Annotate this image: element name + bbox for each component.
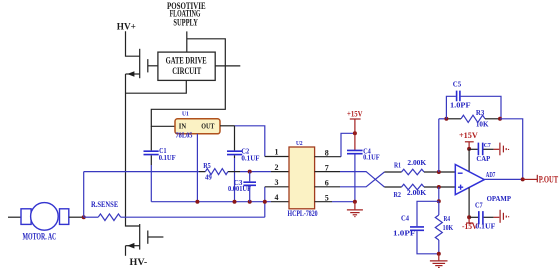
svg-text:CIRCUIT: CIRCUIT (172, 67, 201, 77)
port P.OUT (523, 174, 559, 184)
junction C3 on rail (248, 200, 252, 204)
svg-text:SUPPLY: SUPPLY (173, 17, 198, 27)
svg-text:2.00K: 2.00K (407, 159, 426, 167)
wire common rail to U2 pin4 (151, 201, 271, 203)
capacitor C7 bypass bottom (469, 202, 499, 231)
resistor R3 (439, 109, 500, 128)
wire op-amp V- pin (468, 188, 470, 218)
svg-text:C5: C5 (453, 81, 462, 89)
capacitor C4 filter (1.0PF) (393, 201, 439, 254)
wire plus node branch down (438, 187, 440, 201)
resistor R5 (203, 162, 228, 181)
svg-text:OPAMP: OPAMP (487, 195, 512, 203)
node motor/R.SENSE junction (82, 215, 86, 219)
junction +15V op-amp (467, 147, 471, 151)
wire op-amp V+ pin (468, 149, 470, 173)
svg-text:3: 3 (275, 178, 279, 187)
junction pin8 wire on +15V line (353, 131, 357, 135)
U2 isolation amp HCPL-7820 (288, 140, 318, 218)
svg-text:0.001UF: 0.001UF (228, 185, 251, 193)
wire U2 pin5 to ground node (315, 201, 332, 203)
wire supply to gate drive box (186, 31, 188, 52)
ground below R4 (430, 254, 448, 268)
junction -15V op-amp (467, 215, 471, 219)
wire U2 pin8 to +15V (315, 156, 341, 158)
svg-text:OUT: OUT (201, 121, 214, 130)
wire feedback riser (438, 119, 440, 172)
svg-text:C4: C4 (401, 214, 409, 222)
wire U1 GND drop (196, 134, 198, 202)
power -15V at op-amp (462, 217, 478, 231)
wire U2 pin2 line (84, 171, 271, 173)
svg-text:1.0PF: 1.0PF (393, 230, 415, 238)
svg-text:+15V: +15V (347, 109, 363, 118)
svg-text:1: 1 (275, 148, 279, 157)
svg-text:R3: R3 (476, 109, 485, 117)
ground rotated at C7 bottom (500, 210, 509, 223)
wire HV+ to Q1 drain (126, 31, 140, 56)
svg-text:0.1UF: 0.1UF (241, 154, 259, 162)
junction C5/R3 right (498, 117, 502, 121)
svg-text:4: 4 (275, 193, 279, 202)
wire feedback to output (500, 119, 523, 180)
junction R1 minus node (437, 170, 441, 174)
junction C2 on rail (233, 200, 237, 204)
svg-text:CAP: CAP (476, 155, 491, 163)
wire U2 pin6 cross to R1 (315, 186, 340, 188)
power +15V at U2 (347, 109, 363, 150)
wire U1 OUT to U2 pin1 (220, 125, 235, 127)
svg-text:R4: R4 (444, 215, 451, 223)
wire motor to node (69, 216, 84, 218)
svg-text:0.1UF: 0.1UF (363, 154, 380, 162)
svg-text:R1: R1 (394, 162, 401, 170)
svg-text:-15V: -15V (462, 222, 478, 231)
svg-text:78L05: 78L05 (176, 132, 193, 140)
junction pin3 riser on rail (263, 200, 267, 204)
capacitor C2 (227, 126, 260, 202)
ground below C4 (347, 202, 363, 217)
junction U1 gnd on rail (195, 200, 199, 204)
wire node up to pin2 line (83, 172, 85, 218)
resistor R.SENSE (84, 200, 265, 220)
svg-text:10K: 10K (476, 120, 489, 128)
junction ground bottom (437, 252, 441, 256)
wire supply branch to U1 IN (151, 39, 225, 127)
svg-text:HV+: HV+ (117, 22, 136, 32)
svg-text:1.0PF: 1.0PF (450, 102, 471, 110)
junction ground node (353, 200, 357, 204)
op-amp U3 (455, 165, 511, 203)
svg-text:2: 2 (275, 163, 279, 172)
wire gate drive right stub (215, 65, 240, 67)
U1 regulator 78L05 (175, 111, 220, 140)
svg-text:U1: U1 (182, 111, 189, 118)
capacitor C3 (228, 170, 256, 202)
svg-text:GATE DRIVE: GATE DRIVE (166, 56, 207, 66)
svg-text:HV-: HV- (130, 258, 148, 268)
resistor R2 (384, 184, 455, 199)
svg-text:AD7: AD7 (486, 171, 496, 179)
junction output node (521, 177, 525, 181)
svg-text:49: 49 (205, 173, 212, 181)
junction R2 plus node (437, 185, 441, 189)
transistor Q1 upper MOSFET (126, 49, 158, 78)
capacitor C7 bypass top (469, 142, 499, 163)
junction C5 left (444, 117, 448, 121)
svg-text:C7: C7 (475, 202, 483, 210)
svg-text:C7: C7 (484, 142, 492, 149)
svg-text:IN: IN (179, 121, 187, 130)
svg-text:2.00K: 2.00K (407, 189, 427, 197)
label POSITIVE FLOATING SUPPLY (167, 1, 206, 27)
wire U2 pin7 cross to R2 (315, 171, 340, 173)
svg-text:MOTOR. AC: MOTOR. AC (23, 232, 57, 242)
svg-text:0.1UF: 0.1UF (475, 222, 495, 230)
resistor R1 (384, 159, 455, 175)
wire op-amp output (484, 178, 522, 180)
junction branch split (437, 199, 441, 203)
resistor R4 (435, 201, 453, 254)
capacitor C4 (347, 147, 380, 201)
capacitor C1 (144, 126, 176, 201)
svg-text:U2: U2 (296, 140, 303, 147)
power +15V at op-amp (459, 131, 478, 149)
ground rotated at C7 top (500, 143, 509, 156)
wire gate drive bottom to Q1 source (126, 80, 187, 93)
transistor Q2 lower MOSFET (126, 224, 164, 256)
svg-text:HCPL-7820: HCPL-7820 (288, 209, 318, 218)
motor M AC (8, 203, 69, 242)
wire R.SENSE to U2 pin3 (264, 187, 266, 217)
svg-text:R5: R5 (203, 162, 211, 170)
gate drive circuit box (158, 52, 215, 80)
capacitor C5 (446, 81, 501, 119)
svg-text:+15V: +15V (459, 131, 478, 140)
svg-text:R.SENSE: R.SENSE (91, 200, 118, 209)
svg-text:R2: R2 (394, 191, 402, 199)
svg-text:P.OUT: P.OUT (539, 174, 558, 184)
svg-text:10K: 10K (443, 224, 454, 232)
svg-text:0.1UF: 0.1UF (159, 154, 176, 162)
wire Q1 source down to Q2 drain (126, 74, 140, 226)
